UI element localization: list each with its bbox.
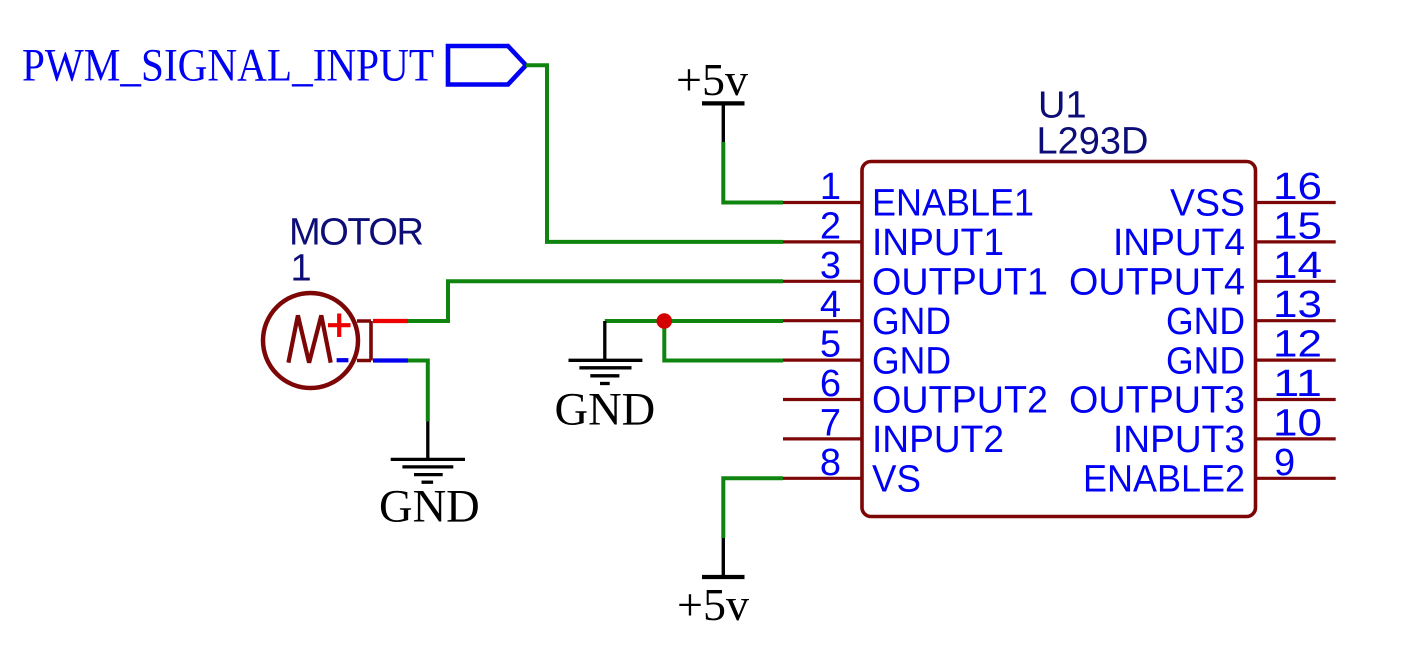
pin 10 INPUT3 (1113, 402, 1336, 461)
pin 13 GND (1166, 284, 1336, 343)
wire GND junction to pin4 GND (605, 319, 783, 323)
svg-text:ENABLE2: ENABLE2 (1083, 459, 1245, 501)
pin 14 OUTPUT4 (1069, 245, 1336, 304)
svg-text:8: 8 (820, 442, 841, 484)
pin 16 VSS (1170, 166, 1336, 225)
svg-text:GND: GND (872, 340, 951, 382)
pin 9 ENABLE2 (1083, 442, 1336, 501)
svg-text:VSS: VSS (1170, 183, 1245, 225)
svg-text:6: 6 (820, 363, 841, 405)
motor terminal bracket (357, 321, 371, 361)
svg-text:2: 2 (820, 205, 841, 247)
wire motor- down to ground (408, 361, 428, 422)
svg-text:OUTPUT2: OUTPUT2 (872, 380, 1048, 422)
svg-text:PWM_SIGNAL_INPUT: PWM_SIGNAL_INPUT (22, 40, 434, 92)
svg-text:11: 11 (1273, 363, 1322, 405)
pin 2 INPUT1 (783, 205, 1004, 264)
wire +5v bottom to pin8 VS (723, 478, 783, 538)
pin 5 GND (783, 324, 951, 383)
wire PWM to pin2 INPUT1 (526, 65, 783, 242)
motor body circle (263, 293, 358, 388)
svg-text:OUTPUT1: OUTPUT1 (872, 262, 1048, 304)
svg-text:GND: GND (872, 301, 951, 343)
IC U1 L293D body (862, 84, 1256, 516)
motor M glyph (288, 315, 330, 362)
ground GND motor (379, 421, 480, 532)
svg-text:16: 16 (1273, 166, 1322, 208)
pin 8 VS (783, 442, 921, 501)
pin 4 GND (783, 284, 951, 343)
pin 7 INPUT2 (783, 402, 1004, 461)
svg-text:15: 15 (1273, 205, 1322, 247)
junction dot (657, 313, 673, 329)
svg-text:12: 12 (1273, 324, 1322, 366)
svg-text:4: 4 (820, 284, 841, 326)
pin 1 ENABLE1 (783, 166, 1034, 225)
wire +5v top to pin1 ENABLE1 (723, 142, 783, 203)
svg-text:+5v: +5v (677, 579, 749, 630)
svg-text:3: 3 (820, 245, 841, 287)
svg-text:1: 1 (291, 248, 312, 290)
svg-text:14: 14 (1273, 245, 1322, 287)
svg-text:ENABLE1: ENABLE1 (872, 183, 1034, 225)
svg-text:GND: GND (379, 482, 480, 533)
pin 11 OUTPUT3 (1069, 363, 1336, 422)
wire motor+ to pin3 OUTPUT1 (408, 281, 783, 321)
svg-text:INPUT1: INPUT1 (872, 222, 1004, 264)
hierarchical label PWM_SIGNAL_INPUT (22, 40, 526, 92)
svg-text:GND: GND (555, 385, 656, 436)
pin 6 OUTPUT2 (783, 363, 1048, 422)
pin 3 OUTPUT1 (783, 245, 1048, 304)
svg-text:VS: VS (872, 459, 921, 501)
blue wire segment motor - (373, 358, 408, 362)
svg-text:10: 10 (1273, 402, 1322, 444)
power +5v bottom (677, 538, 749, 630)
svg-text:INPUT2: INPUT2 (872, 419, 1004, 461)
red wire segment motor + (373, 319, 408, 323)
svg-text:7: 7 (820, 402, 841, 444)
svg-text:L293D: L293D (1037, 120, 1149, 162)
motor M1 (263, 211, 424, 388)
pin 15 INPUT4 (1113, 205, 1336, 264)
ground GND middle (555, 321, 656, 436)
svg-text:+5v: +5v (676, 54, 748, 105)
svg-text:OUTPUT4: OUTPUT4 (1069, 262, 1245, 304)
power +5v top (676, 54, 748, 142)
svg-text:13: 13 (1273, 284, 1322, 326)
svg-text:GND: GND (1166, 301, 1245, 343)
svg-text:INPUT4: INPUT4 (1113, 222, 1245, 264)
minus mark (337, 358, 349, 362)
plus mark (328, 314, 351, 338)
svg-text:GND: GND (1166, 340, 1245, 382)
svg-text:9: 9 (1274, 442, 1295, 484)
wire junction to pin5 GND (664, 321, 783, 361)
svg-text:1: 1 (820, 166, 841, 208)
svg-text:OUTPUT3: OUTPUT3 (1069, 380, 1245, 422)
svg-text:5: 5 (820, 324, 841, 366)
svg-text:INPUT3: INPUT3 (1113, 419, 1245, 461)
pin 12 GND (1166, 324, 1336, 383)
